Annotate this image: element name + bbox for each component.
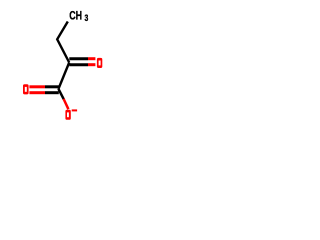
keto C=O double bond black half: [69, 57, 88, 60]
svg-text:CH: CH: [69, 9, 82, 23]
label keto O (red): [97, 58, 102, 68]
wire bond carboxyl C to O- black half: [58, 89, 64, 100]
label carboxyl double-bond O (red, left): [23, 84, 29, 94]
label carboxylate O- (red, bottom): [65, 110, 70, 120]
carboxyl C=O double bond red half: [29, 85, 45, 88]
minus charge of O-: [72, 109, 77, 111]
svg-text:3: 3: [85, 13, 89, 23]
carboxyl C=O double bond black half: [45, 85, 59, 88]
keto C=O double bond red half: [88, 57, 95, 60]
wire bond carboxyl C to O- red half: [64, 99, 69, 109]
wire bond CH3 to C3 (polyline with elbow): [57, 22, 69, 63]
label CH3 (methyl): [69, 9, 89, 23]
wire bond C2 to carboxyl C: [58, 63, 69, 90]
